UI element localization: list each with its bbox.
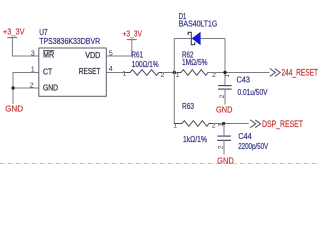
svg-text:R63: R63 xyxy=(182,101,194,111)
wire: RESET pin 4 to R61 xyxy=(106,72,130,74)
wire: GND pin 2 to ground vertical xyxy=(13,87,39,89)
svg-text:1: 1 xyxy=(176,72,180,79)
node junction (244_RESET net) xyxy=(223,71,226,74)
svg-text:1: 1 xyxy=(173,123,177,130)
svg-text:1MΩ/5%: 1MΩ/5% xyxy=(182,57,208,67)
op IC U7 TPS3836K33DBVR body xyxy=(39,48,107,96)
page border (dashed bottom edge) xyxy=(0,163,320,165)
svg-text:100Ω/1%: 100Ω/1% xyxy=(132,59,159,69)
svg-text:GND: GND xyxy=(217,156,234,166)
svg-text:C44: C44 xyxy=(238,131,252,141)
wire: R63 to DSP_RESET port xyxy=(213,123,249,125)
svg-text:CT: CT xyxy=(43,66,52,76)
wire: right vertical (diode to C43) xyxy=(224,39,226,86)
port 244_RESET xyxy=(270,67,318,77)
svg-text:2: 2 xyxy=(161,72,165,79)
wire: VDD pin 5 to +3_3V (right) xyxy=(106,40,132,56)
svg-text:GND: GND xyxy=(43,82,58,92)
svg-text:1: 1 xyxy=(123,71,127,78)
svg-text:244_RESET: 244_RESET xyxy=(282,67,319,77)
svg-text:2200p/50V: 2200p/50V xyxy=(238,141,268,151)
svg-text:2: 2 xyxy=(30,80,34,89)
wire: CT pin 1 to ground vertical xyxy=(13,73,39,105)
svg-text:3: 3 xyxy=(31,49,35,58)
svg-text:R61: R61 xyxy=(132,49,144,59)
svg-text:+3_3V: +3_3V xyxy=(123,28,143,38)
svg-text:VDD: VDD xyxy=(85,50,100,60)
junction dot (gnd net) xyxy=(11,86,14,89)
resistor R61 xyxy=(123,49,165,79)
svg-text:2: 2 xyxy=(217,145,224,149)
svg-text:1: 1 xyxy=(218,123,225,127)
wire: vertical junction to diode branch and R63 branch xyxy=(173,39,175,124)
svg-text:1: 1 xyxy=(31,65,35,74)
power symbol +3_3V (right) xyxy=(123,28,143,39)
wire: +3_3V to pin 3 (MR) xyxy=(12,38,38,56)
svg-text:1kΩ/1%: 1kΩ/1% xyxy=(183,134,208,144)
node junction (RESET net, 4-way) xyxy=(173,71,176,74)
capacitor C43 xyxy=(218,74,268,99)
svg-text:BAS40LT1G: BAS40LT1G xyxy=(179,19,218,29)
power symbol +3_3V (left) xyxy=(3,27,25,38)
capacitor C44 xyxy=(217,123,268,151)
resistor R62 xyxy=(176,49,216,79)
wire: C44 to GND xyxy=(223,140,225,154)
wire: R62 to output junction xyxy=(208,72,269,74)
wire: C43 to GND xyxy=(224,89,226,104)
diode D1 BAS40LT1G (schottky) xyxy=(179,11,218,46)
svg-text:C43: C43 xyxy=(237,74,251,84)
svg-text:DSP_RESET: DSP_RESET xyxy=(262,119,303,129)
port DSP_RESET xyxy=(250,119,303,129)
svg-text:0.01u/50V: 0.01u/50V xyxy=(238,87,268,97)
wire: diode anode to right vertical xyxy=(201,38,225,40)
wire: diode branch top left xyxy=(174,38,191,40)
node junction (DSP_RESET net) xyxy=(222,122,225,125)
svg-text:TPS3836K33DBVR: TPS3836K33DBVR xyxy=(39,36,100,46)
svg-text:+3_3V: +3_3V xyxy=(3,27,25,37)
wire: R61 to junction to R62 xyxy=(162,72,181,74)
resistor R63 xyxy=(173,101,215,144)
svg-text:RESET: RESET xyxy=(79,66,101,76)
svg-text:1: 1 xyxy=(224,74,231,78)
svg-text:GND: GND xyxy=(5,103,23,113)
svg-text:GND: GND xyxy=(216,105,232,115)
svg-text:4: 4 xyxy=(109,64,113,73)
